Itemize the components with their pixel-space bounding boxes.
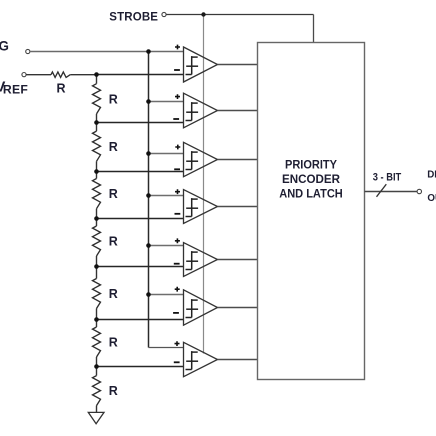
comparator U5 bbox=[174, 238, 218, 276]
wire: analog input to comparator U1 + bbox=[30, 51, 184, 53]
comparator U1 bbox=[174, 45, 217, 82]
wire: ladder node 3 to comparator U3 - input bbox=[97, 171, 184, 173]
terminal: digital output bbox=[417, 189, 421, 193]
resistor R7 (ladder) bbox=[93, 327, 101, 357]
wire: ladder segment above R8 bbox=[96, 367, 98, 376]
wire: ladder segment below R7 bbox=[96, 357, 98, 367]
svg-text:R: R bbox=[109, 140, 118, 154]
wire: ladder segment below R8 bbox=[96, 406, 98, 413]
wire: ladder segment above R4 bbox=[96, 172, 98, 179]
wire: + feed to comparator U3 bbox=[149, 153, 184, 155]
svg-text:R: R bbox=[109, 235, 118, 249]
wire: ladder node 5 to comparator U5 - input bbox=[97, 266, 184, 268]
wire: ladder segment below R6 bbox=[96, 309, 98, 320]
svg-text:DIGITAL: DIGITAL bbox=[427, 169, 436, 180]
wire: + feed to comparator U2 bbox=[149, 101, 184, 103]
wire: ladder segment above R7 bbox=[96, 320, 98, 328]
resistor R6 (ladder) bbox=[93, 279, 101, 309]
wire: ladder node 7 to comparator U7 - input bbox=[97, 366, 184, 368]
svg-text:STROBE: STROBE bbox=[109, 12, 158, 24]
svg-text:AND LATCH: AND LATCH bbox=[279, 187, 343, 201]
wire: comparator U7 output to encoder bbox=[218, 359, 258, 361]
wire: ladder node 2 to comparator U2 - input bbox=[97, 122, 184, 124]
comparator U6 bbox=[173, 287, 217, 325]
wire: ladder segment above R3 bbox=[96, 123, 98, 132]
node: ladder junction 6 bbox=[94, 317, 99, 322]
node: ladder junction 5 bbox=[94, 264, 99, 269]
wire: ladder node 4 to comparator U4 - input bbox=[97, 218, 184, 220]
svg-text:ENCODER: ENCODER bbox=[282, 172, 340, 186]
node: analog tap junction 1 bbox=[146, 49, 151, 54]
ground bbox=[88, 412, 104, 423]
wire: ladder segment below R2 bbox=[96, 114, 98, 123]
wire: comparator U1 output to encoder bbox=[218, 64, 258, 66]
wire: R1 to ladder node 1 bbox=[70, 74, 96, 76]
wire: ladder segment below R4 bbox=[96, 209, 98, 219]
wire: ladder segment below R5 bbox=[96, 256, 98, 267]
svg-text:REF: REF bbox=[3, 83, 28, 97]
resistor R4 (ladder) bbox=[93, 179, 101, 209]
resistor R2 (ladder) bbox=[93, 84, 101, 114]
node: analog tap junction 6 bbox=[146, 292, 151, 297]
svg-text:R: R bbox=[109, 287, 118, 301]
resistor R8 (ladder) bbox=[93, 376, 101, 406]
svg-text:R: R bbox=[109, 92, 118, 106]
wire: + feed to comparator U4 bbox=[149, 195, 184, 197]
wire: comparator U4 output to encoder bbox=[218, 206, 258, 208]
svg-text:3 - BIT: 3 - BIT bbox=[373, 172, 402, 184]
wire: ladder segment above R5 bbox=[96, 219, 98, 227]
wire: comparator U6 output to encoder bbox=[218, 307, 258, 309]
wire: ladder segment above R2 bbox=[96, 75, 98, 84]
wire: comparator U2 output to encoder bbox=[218, 110, 258, 112]
node: analog tap junction 5 bbox=[146, 243, 151, 248]
node: strobe junction bbox=[201, 12, 205, 16]
wire: STROBE horizontal bbox=[166, 14, 314, 16]
terminal: analog input bbox=[26, 49, 30, 53]
svg-text:PRIORITY: PRIORITY bbox=[285, 158, 337, 172]
comparator U4 bbox=[175, 189, 218, 223]
resistor R1 (series) bbox=[51, 72, 70, 77]
svg-text:R: R bbox=[57, 81, 66, 95]
node: ladder junction 4 bbox=[94, 216, 99, 221]
wire: + feed to comparator U6 bbox=[149, 294, 184, 296]
wire: ladder segment below R3 bbox=[96, 161, 98, 171]
terminal: VREF input bbox=[22, 73, 26, 77]
priority encoder and latch box U8 bbox=[258, 43, 365, 380]
node: ladder junction 2 bbox=[94, 120, 99, 125]
wire: strobe vertical bus to comparators bbox=[203, 15, 205, 354]
wire: analog distribution vertical bbox=[148, 52, 150, 348]
wire: ladder node 6 to comparator U6 - input bbox=[97, 319, 184, 321]
resistor R3 (ladder) bbox=[93, 131, 101, 161]
node: analog tap junction 4 bbox=[146, 193, 151, 198]
svg-text:OUTPUT: OUTPUT bbox=[427, 193, 436, 204]
resistor R5 (ladder) bbox=[93, 226, 101, 256]
wire: comparator U3 output to encoder bbox=[218, 159, 258, 161]
comparator U7 bbox=[174, 341, 218, 377]
wire: + feed to comparator U7 bbox=[149, 347, 184, 349]
terminal: STROBE input bbox=[162, 12, 166, 16]
wire: ladder segment above R6 bbox=[96, 267, 98, 279]
wire: comparator U5 output to encoder bbox=[218, 259, 258, 261]
wire: + feed to comparator U5 bbox=[149, 245, 184, 247]
wire: ladder node 1 to comparator U1 - input bbox=[97, 74, 184, 76]
node: analog tap junction 2 bbox=[146, 99, 151, 104]
wire: 3-bit output bus bbox=[365, 191, 418, 193]
label PRIORITY ENCODER AND LATCH bbox=[279, 158, 343, 201]
svg-text:R: R bbox=[109, 336, 118, 350]
bus width slash bbox=[377, 184, 387, 197]
svg-text:R: R bbox=[109, 384, 118, 398]
node: ladder junction 3 bbox=[94, 169, 99, 174]
node: analog tap junction 3 bbox=[146, 151, 151, 156]
node: ladder junction 7 bbox=[94, 364, 99, 369]
node: ladder junction 1 bbox=[94, 72, 99, 77]
comparator U2 bbox=[173, 93, 217, 128]
wire: VREF terminal to resistor R1 bbox=[26, 74, 51, 76]
comparator U3 bbox=[174, 142, 217, 176]
svg-text:ANALOG: ANALOG bbox=[0, 38, 9, 53]
wire: STROBE drop into encoder top bbox=[313, 15, 315, 43]
svg-text:R: R bbox=[109, 187, 118, 201]
